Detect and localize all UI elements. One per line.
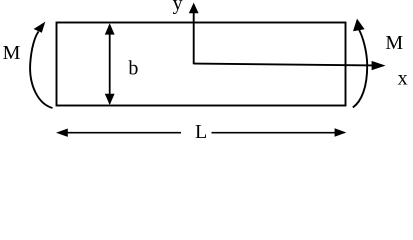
dimension b bottom arrowhead bbox=[105, 94, 115, 105]
svg-text:M: M bbox=[385, 32, 403, 54]
x-axis line bbox=[194, 64, 374, 66]
y-axis line bbox=[193, 12, 195, 65]
dimension L left arrowhead bbox=[56, 129, 68, 137]
svg-text:L: L bbox=[195, 121, 207, 142]
dimension b top arrowhead bbox=[105, 23, 115, 34]
svg-text:b: b bbox=[128, 58, 138, 80]
dimension L right arrowhead bbox=[335, 128, 347, 136]
dimension L left segment bbox=[58, 132, 181, 134]
svg-text:y: y bbox=[173, 0, 183, 15]
dimension b arrow line bbox=[109, 25, 111, 104]
y-axis arrowhead bbox=[189, 3, 199, 14]
left moment arc bbox=[30, 32, 52, 109]
right moment arrowhead bbox=[353, 19, 365, 32]
svg-text:M: M bbox=[3, 42, 21, 64]
right moment arc bbox=[353, 30, 367, 108]
dimension L right segment bbox=[212, 132, 345, 134]
beam rectangle bbox=[57, 23, 346, 106]
svg-text:x: x bbox=[398, 67, 408, 89]
x-axis arrowhead bbox=[372, 61, 386, 70]
left moment arrowhead bbox=[34, 22, 46, 33]
